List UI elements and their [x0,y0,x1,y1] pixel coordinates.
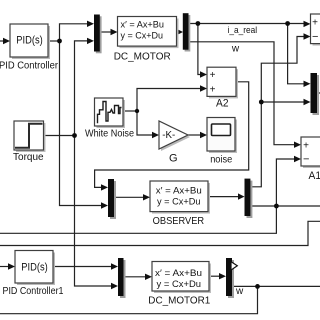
svg-text:Torque: Torque [13,151,44,163]
Observer Mux [110,181,116,219]
wire: G output to noise scope [188,134,201,136]
wire: Torque junction vertical up to Mux1 input 2, down to bottom Mux input 2 [75,41,112,286]
Observer Demux [247,181,253,218]
svg-text:PID(s): PID(s) [21,261,48,273]
Torque step block [16,123,46,152]
svg-text:i_a_real: i_a_real [228,25,258,36]
PID Controller block [12,26,50,59]
svg-text:+: + [210,85,216,96]
wire: junction up to Mux1 input 1 [60,24,89,41]
svg-text:A2: A2 [216,98,229,110]
arrow into Sum1 plus [304,21,311,27]
wire: branch i_a_real down to right Mux input 1 [288,24,304,84]
svg-text:PID Controller1: PID Controller1 [3,285,64,297]
svg-text:y = Cx+Du: y = Cx+Du [157,197,201,208]
DC_MOTOR state-space block [120,19,179,49]
arrow into A2 input 1 [200,71,207,77]
PID Controller1 block [17,253,55,286]
wire: Observer Mux output to OBSERVER [114,196,144,198]
svg-text:w: w [231,43,240,54]
wire: bottom Demux w output to right edge [232,285,320,287]
svg-text:+: + [312,18,318,29]
svg-text:White Noise: White Noise [85,127,134,139]
svg-text:w: w [235,286,244,297]
icon white noise staircase [98,102,122,124]
svg-text:-K-: -K- [162,130,175,141]
wire: White Noise output to junction [123,110,137,112]
wire: branch down then long feedback left at y=313.7 [0,286,258,313]
svg-text:+: + [303,141,309,152]
node: i_a_real junction 1 [196,21,201,26]
arrow into DC_MOTOR [111,29,118,35]
node: estimated current junction [259,100,264,105]
wire: i_a_real from Demux1 out1 to Sum1 plus input [189,23,304,25]
wire: junction down to Observer Mux input 2 [60,41,103,206]
svg-text:DC_MOTOR1: DC_MOTOR1 [148,294,210,306]
node: i_a_real junction 2 [285,21,290,26]
svg-text:−: − [303,153,309,165]
node: white noise junction [135,109,139,113]
Demux1 (top) [185,15,191,52]
node: PID output junction [57,39,62,44]
svg-text:x′ = Ax+Bu: x′ = Ax+Bu [155,268,202,279]
arrow into gain G [152,132,159,138]
svg-text:x′ = Ax+Bu: x′ = Ax+Bu [121,19,165,30]
White Noise block [97,100,126,128]
arrow into A1 plus [294,142,301,148]
noise scope block [209,120,237,154]
arrow into Mux1 input 1 [87,21,94,27]
svg-text:y = Cx+Du: y = Cx+Du [121,30,164,41]
wire: branch i_a_real down to A2 input 1 [198,24,200,75]
wire: branch of estimated current to right Mux input 2 [261,101,304,103]
arrow into OBSERVER [143,194,150,200]
wire: A2 output right, down, left, down into Observer Mux input 1 [95,82,249,188]
DC_MOTOR1 state-space block [154,264,211,294]
wire: junction up to A2 input 2 [137,89,200,112]
OBSERVER state-space block [152,183,210,214]
wire: branch up to A1 minus input [276,159,294,206]
A1 sum block [303,139,320,168]
arrow into bottom Mux input 1 [111,263,118,269]
arrow into Demux1 [177,29,184,35]
svg-text:A1: A1 [309,170,320,182]
arrow into Observer Mux input 1 [101,184,108,190]
arrow into right Mux input 2 [304,99,311,105]
svg-text:−: − [312,31,318,43]
wire: w from Demux1 out2 right then down to A1 plus input [189,42,295,145]
svg-text:noise: noise [210,154,232,166]
svg-text:+: + [210,70,216,81]
right Mux [313,75,320,115]
wire: input to PID Controller from left edge [0,40,4,42]
arrow into noise scope [200,132,207,138]
wire: PID Controller1 output to bottom Mux input 1 [53,266,112,268]
node: w feedback junction bottom [255,284,260,289]
wire: right Mux output stub to right edge [317,92,320,94]
svg-text:OBSERVER: OBSERVER [153,215,205,227]
arrow into Observer Mux input 2 [101,202,108,208]
arrow into PID Controller [3,38,10,44]
arrow into DC_MOTOR1 [145,274,152,280]
arrow into bottom Demux [219,273,226,279]
wire: Observer Demux out2 to right edge [250,205,320,207]
wire: input to PID Controller1 from left edge [0,266,9,268]
arrow into right Mux input 1 [304,81,311,87]
bottom Demux [228,260,234,298]
arrow into A2 input 2 [200,85,207,91]
svg-text:G: G [169,152,178,164]
A2 sum block [209,69,238,98]
node: estimated speed junction [274,204,279,209]
arrow into Sum1 minus [304,33,311,39]
wire: Torque output to junction [44,135,75,137]
arrow into A1 minus [294,156,301,162]
svg-text:y = Cx+Du: y = Cx+Du [157,279,202,290]
gain G triangle [161,123,190,151]
svg-text:DC_MOTOR: DC_MOTOR [114,51,171,63]
wire: branch down then long feedback left at y=233 [0,206,276,233]
wire: OBSERVER output to Observer Demux [208,196,239,198]
arrow into Observer Demux [238,193,245,199]
wire: bottom Mux output to DC_MOTOR1 [124,276,146,278]
svg-text:x′ = Ax+Bu: x′ = Ax+Bu [156,186,202,197]
svg-text:PID Controller: PID Controller [0,60,58,72]
Mux1 (top) [96,16,102,53]
arrow into bottom Mux input 2 [111,283,118,289]
icon step [15,124,43,148]
node: Torque output junction [72,133,77,138]
bottom Mux [120,260,126,298]
wire: right edge feedback down to long line y=245.5 [0,221,320,245]
wire: DC_MOTOR1 output to bottom Demux [209,275,220,277]
wire: DC_MOTOR output to Demux1 [177,31,178,33]
wire: Observer Demux out1 up to Sum1 minus input [250,37,304,187]
wire: Mux1 output to DC_MOTOR [100,31,112,33]
Sum1 block (top right, + -) [313,16,320,46]
arrow into Mux1 input 2 [87,38,94,44]
wire: junction down to gain G input [137,111,153,135]
wire: PID output to junction [48,40,60,42]
unconnected output hollow arrow on bottom Demux out1 [231,262,237,271]
svg-text:PID(s): PID(s) [16,35,43,47]
arrow into PID Controller1 [8,263,15,269]
